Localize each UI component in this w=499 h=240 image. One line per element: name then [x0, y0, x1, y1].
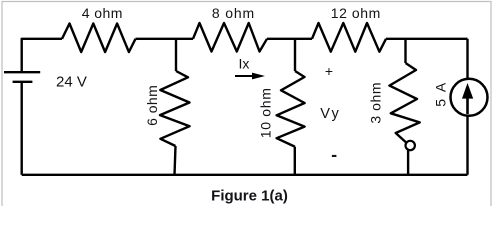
wire	[294, 147, 296, 175]
wire	[407, 150, 409, 175]
svg-text:+: +	[325, 63, 333, 79]
voltage polarity label -	[332, 155, 337, 157]
svg-text:10 ohm: 10 ohm	[258, 87, 274, 138]
svg-text:5 A: 5 A	[433, 81, 449, 107]
svg-text:Figure 1(a): Figure 1(a)	[211, 188, 288, 205]
svg-text:24 V: 24 V	[56, 73, 87, 90]
wire	[22, 39, 62, 71]
resistor R3 8 ohm	[193, 23, 267, 52]
svg-text:12 ohm: 12 ohm	[331, 5, 381, 21]
wire	[404, 39, 406, 63]
wire	[466, 39, 468, 79]
wire	[386, 38, 468, 40]
resistor R5 12 ohm	[312, 23, 386, 52]
svg-text:Vy: Vy	[320, 106, 341, 122]
current arrow Ix	[235, 73, 265, 80]
resistor R2 6 ohm	[160, 71, 190, 146]
svg-text:4 ohm: 4 ohm	[82, 5, 123, 21]
wire	[294, 39, 296, 71]
wire	[267, 38, 312, 40]
svg-text:3 ohm: 3 ohm	[367, 82, 383, 124]
svg-text:Ix: Ix	[239, 56, 250, 72]
wire	[21, 83, 23, 175]
wire	[175, 146, 176, 175]
wire	[175, 39, 177, 71]
svg-text:8 ohm: 8 ohm	[212, 5, 255, 21]
resistor R6 3 ohm	[389, 63, 419, 150]
current source I1 5 A	[451, 79, 488, 116]
wire	[136, 38, 194, 40]
wire	[22, 174, 468, 176]
voltage source V1 24 V battery	[4, 72, 40, 82]
svg-text:6 ohm: 6 ohm	[144, 85, 160, 126]
resistor R4 10 ohm	[277, 71, 305, 147]
resistor R1 4 ohm	[62, 24, 136, 53]
wire	[466, 116, 468, 175]
